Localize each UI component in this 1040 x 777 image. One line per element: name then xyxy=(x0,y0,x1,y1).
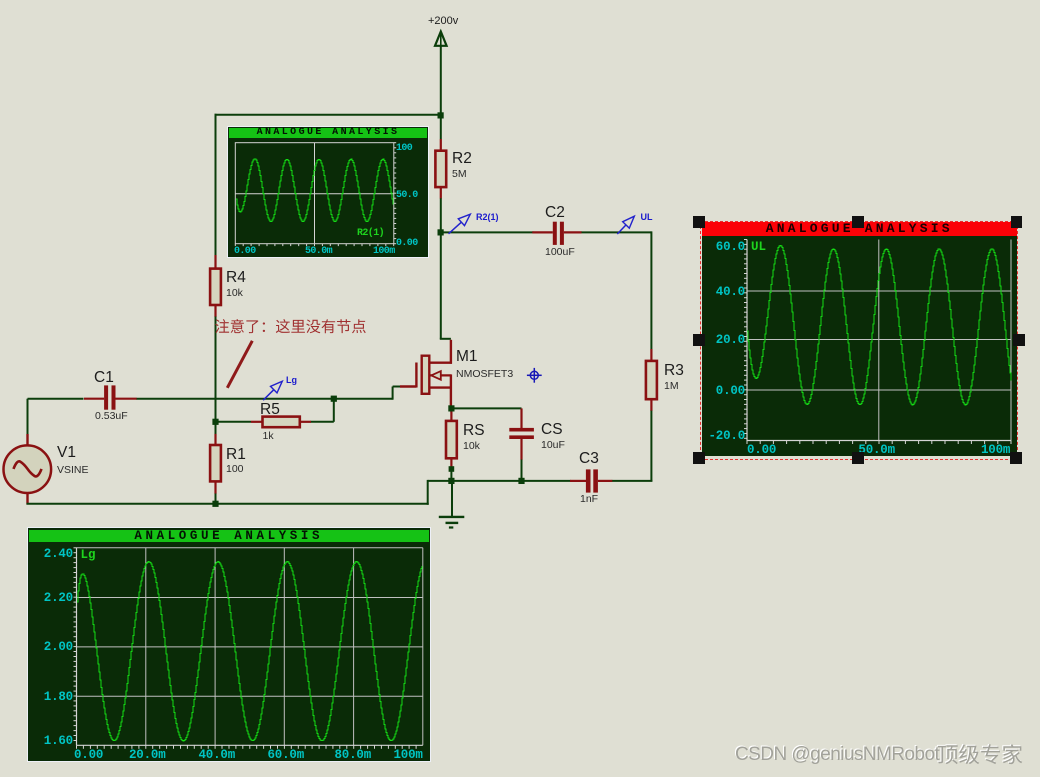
label probe R2(1) xyxy=(476,212,499,222)
wire gate row from V1/C1 to MOSFET gate xyxy=(28,387,401,400)
graph3 analogue analysis selected right xyxy=(693,215,1026,465)
wire ground rail xyxy=(27,480,653,505)
label probe Lg xyxy=(286,375,297,385)
label C2 xyxy=(545,204,565,222)
junction node CS bottom on rail xyxy=(518,478,524,484)
label C1 xyxy=(94,369,114,387)
resistor R1 xyxy=(210,422,221,505)
sine source V1 VSINE xyxy=(4,399,52,505)
junction node R5 right on gate row xyxy=(331,396,337,402)
junction node M1 source / RS top xyxy=(448,405,454,411)
graph2 axes grid and trace xyxy=(28,528,434,763)
label R5 xyxy=(260,401,280,419)
graph2 analogue analysis bottom xyxy=(27,527,431,762)
ground xyxy=(439,481,465,528)
label R3 xyxy=(664,362,684,380)
resistor R4 xyxy=(210,255,221,317)
wire R2 bottom to C2 junction and M1 drain xyxy=(440,198,451,339)
annotation slash mark xyxy=(227,341,252,388)
resistor R2 xyxy=(435,139,446,199)
graph3 trace label UL xyxy=(751,240,766,254)
graph3 axes grid and trace xyxy=(693,215,1026,465)
capacitor C1 xyxy=(84,385,137,409)
annotation text no node here xyxy=(215,319,366,333)
label M1 xyxy=(456,348,478,366)
capacitor CS xyxy=(509,408,534,481)
transistor M1 NMOSFET3 xyxy=(400,340,452,408)
capacitor C3 xyxy=(570,469,612,492)
junction node R2(1) at C2 branch xyxy=(438,229,444,235)
graph3 selection dashed border xyxy=(700,221,1018,460)
graph1 analogue analysis top-left xyxy=(227,126,429,258)
graph3 x labels xyxy=(747,443,776,457)
resistor R3 xyxy=(646,349,657,481)
selection handles xyxy=(693,216,705,228)
graph1 trace label R2(1) xyxy=(357,228,384,239)
resistor R5 xyxy=(251,417,311,428)
label +200v xyxy=(428,15,458,27)
label R4 xyxy=(226,269,246,287)
label V1 xyxy=(57,444,76,462)
label CS xyxy=(541,421,563,439)
wire left vertical to R4 xyxy=(215,114,217,256)
graph2 y labels xyxy=(32,547,73,561)
resistor RS xyxy=(446,408,457,481)
graph1 x labels xyxy=(234,246,256,257)
junction node R5 left xyxy=(212,419,218,425)
graph3 title bar red xyxy=(702,222,1018,236)
graph2 trace label Lg xyxy=(81,548,96,562)
label C3 xyxy=(579,450,599,468)
label RS xyxy=(463,422,485,440)
graph2 title bar xyxy=(29,530,429,543)
junction node R1 bottom on rail xyxy=(212,501,218,507)
wire C2 row to R3 top xyxy=(441,231,652,349)
capacitor C2 xyxy=(532,222,581,245)
wire R5 branch xyxy=(216,398,334,422)
graph3 body xyxy=(702,222,1018,456)
graph3 y labels xyxy=(699,240,745,254)
wire R4 bottom through row crossing to R5 junction xyxy=(215,317,217,423)
label R2 xyxy=(452,150,472,168)
origin crosshair marker xyxy=(527,368,542,383)
junction node RS bottom on rail xyxy=(448,478,454,484)
graph1 y labels xyxy=(396,143,412,154)
label probe UL xyxy=(641,212,653,222)
wire CS branch xyxy=(450,407,521,409)
voltage probe UL xyxy=(617,216,634,234)
watermark chinese xyxy=(730,744,1040,777)
graph1 axes and trace xyxy=(228,127,430,259)
graph1 title bar xyxy=(229,128,427,138)
wire top horizontal xyxy=(215,114,441,116)
junction node RS bottom pin xyxy=(449,466,455,472)
junction node at R2 top wire xyxy=(438,112,444,118)
graph2 x labels xyxy=(74,748,103,762)
voltage probe R2(1) xyxy=(449,214,471,234)
voltage probe Lg xyxy=(263,381,282,400)
power symbol +200v xyxy=(435,32,447,140)
watermark CSDN xyxy=(735,744,939,766)
label R1 xyxy=(226,446,246,464)
